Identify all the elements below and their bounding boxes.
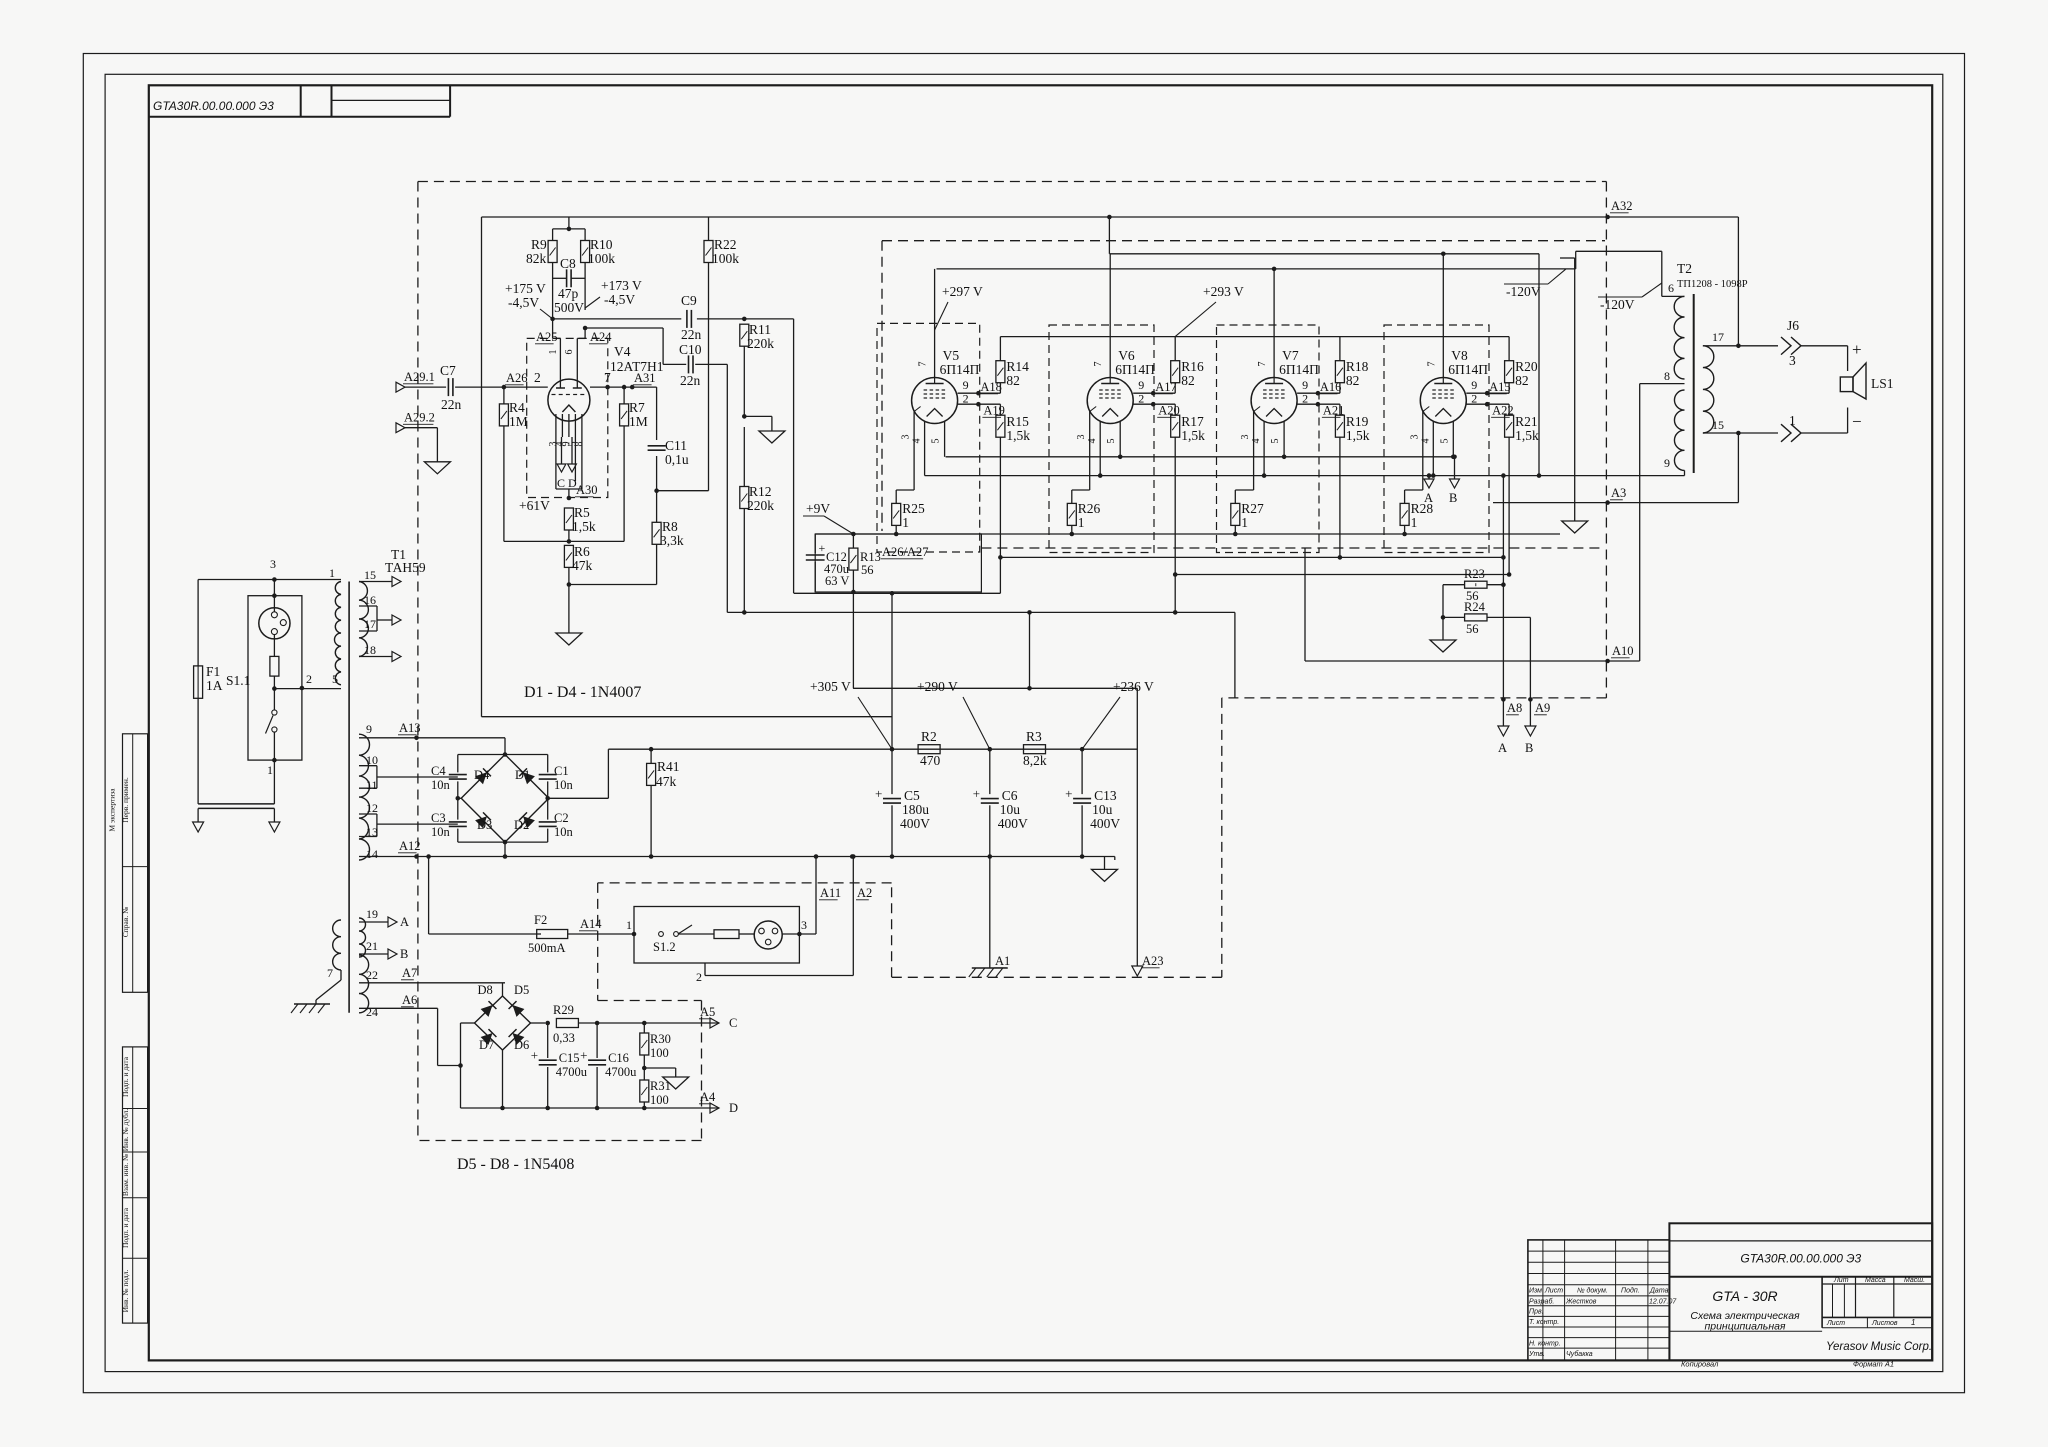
svg-text:D6: D6 — [514, 1038, 529, 1052]
svg-text:ТП1208 - 1098Р: ТП1208 - 1098Р — [1677, 279, 1748, 290]
svg-text:Утв.: Утв. — [1528, 1351, 1545, 1358]
svg-text:7: 7 — [604, 370, 611, 385]
svg-text:+: + — [1852, 340, 1862, 359]
svg-text:47k: 47k — [656, 774, 677, 789]
svg-text:V6: V6 — [1118, 348, 1135, 363]
svg-text:R30: R30 — [650, 1032, 671, 1046]
svg-text:400V: 400V — [998, 816, 1028, 831]
svg-text:A26/A27: A26/A27 — [882, 545, 929, 559]
svg-text:10n: 10n — [554, 778, 574, 792]
svg-text:B: B — [400, 947, 408, 961]
svg-text:R3: R3 — [1026, 729, 1042, 744]
svg-text:3: 3 — [901, 435, 912, 440]
svg-text:C3: C3 — [431, 811, 446, 825]
svg-text:C9: C9 — [681, 293, 697, 308]
svg-text:R17: R17 — [1181, 414, 1204, 429]
svg-text:+: + — [973, 786, 980, 801]
svg-text:Масш.: Масш. — [1904, 1277, 1925, 1284]
svg-text:+: + — [875, 786, 882, 801]
svg-text:22n: 22n — [681, 327, 702, 342]
svg-text:+175 V: +175 V — [505, 281, 546, 296]
svg-text:5: 5 — [1270, 439, 1281, 444]
svg-text:GTA30R.00.00.000 Э3: GTA30R.00.00.000 Э3 — [1740, 1251, 1861, 1265]
svg-text:C13: C13 — [1094, 788, 1117, 803]
svg-text:Взам. инв. №: Взам. инв. № — [121, 1154, 130, 1196]
svg-text:9: 9 — [1664, 456, 1670, 470]
svg-text:6: 6 — [564, 350, 575, 355]
svg-text:5: 5 — [931, 439, 942, 444]
svg-text:3: 3 — [270, 557, 276, 571]
svg-text:10n: 10n — [554, 825, 574, 839]
svg-text:6П14П: 6П14П — [1279, 362, 1319, 377]
svg-text:Инв. № дубл.: Инв. № дубл. — [121, 1109, 130, 1152]
svg-text:+297 V: +297 V — [942, 284, 983, 299]
svg-text:C11: C11 — [665, 438, 687, 453]
svg-text:J6: J6 — [1787, 318, 1799, 333]
svg-text:D7: D7 — [479, 1038, 494, 1052]
svg-text:63 V: 63 V — [825, 574, 849, 588]
svg-text:82: 82 — [1181, 373, 1195, 388]
svg-text:R23: R23 — [1464, 567, 1485, 581]
svg-text:Жестков: Жестков — [1565, 1299, 1597, 1306]
svg-text:LS1: LS1 — [1871, 376, 1894, 391]
svg-text:10: 10 — [366, 753, 378, 767]
svg-text:C: C — [729, 1016, 737, 1030]
svg-text:Перв. примен.: Перв. примен. — [121, 777, 130, 823]
svg-text:8: 8 — [1664, 369, 1670, 383]
svg-text:B: B — [1525, 741, 1533, 755]
svg-text:6П14П: 6П14П — [1115, 362, 1155, 377]
svg-text:-120V: -120V — [1600, 297, 1635, 312]
svg-text:4700u: 4700u — [605, 1065, 637, 1079]
svg-text:100: 100 — [650, 1093, 669, 1107]
svg-text:A5: A5 — [700, 1005, 715, 1019]
svg-text:-120V: -120V — [1506, 284, 1541, 299]
svg-text:11: 11 — [366, 778, 378, 792]
svg-text:принципиальная: принципиальная — [1704, 1321, 1785, 1333]
svg-text:100k: 100k — [712, 251, 739, 266]
svg-text:A: A — [1424, 491, 1433, 505]
svg-text:D3: D3 — [477, 818, 492, 832]
svg-text:A9: A9 — [1535, 701, 1550, 715]
svg-text:Подп. и дата: Подп. и дата — [121, 1207, 130, 1248]
svg-text:56: 56 — [861, 563, 874, 577]
svg-text:1: 1 — [626, 918, 632, 932]
svg-text:1: 1 — [1411, 515, 1418, 530]
svg-text:Подп. и дата: Подп. и дата — [121, 1056, 130, 1097]
svg-text:C7: C7 — [440, 363, 456, 378]
svg-text:R10: R10 — [590, 237, 613, 252]
svg-text:1,5k: 1,5k — [1515, 428, 1539, 443]
svg-text:A6: A6 — [402, 993, 417, 1007]
svg-text:+9V: +9V — [806, 501, 830, 516]
svg-text:R11: R11 — [749, 322, 771, 337]
svg-text:1: 1 — [1241, 515, 1248, 530]
svg-text:C6: C6 — [1002, 788, 1018, 803]
svg-text:A31: A31 — [634, 371, 656, 385]
svg-text:4: 4 — [1087, 439, 1098, 444]
svg-text:7: 7 — [1426, 362, 1437, 367]
svg-text:A23: A23 — [1142, 954, 1164, 968]
svg-text:Копировал: Копировал — [1681, 1360, 1719, 1369]
svg-text:Справ. №: Справ. № — [121, 907, 130, 938]
svg-text:A26: A26 — [506, 371, 528, 385]
svg-text:R6: R6 — [574, 544, 590, 559]
svg-text:+: + — [1065, 786, 1072, 801]
svg-text:R9: R9 — [531, 237, 547, 252]
svg-text:2: 2 — [696, 970, 702, 984]
svg-text:R21: R21 — [1515, 414, 1538, 429]
svg-text:Изм: Изм — [1529, 1288, 1542, 1295]
svg-text:A1: A1 — [995, 954, 1010, 968]
svg-text:22: 22 — [366, 968, 378, 982]
svg-text:R19: R19 — [1346, 414, 1369, 429]
svg-text:2: 2 — [1471, 392, 1477, 406]
svg-text:GTA - 30R: GTA - 30R — [1712, 1288, 1777, 1304]
svg-text:D1: D1 — [515, 768, 530, 782]
svg-text:+173 V: +173 V — [601, 278, 642, 293]
svg-text:6: 6 — [1668, 281, 1674, 295]
svg-text:Н. контр.: Н. контр. — [1529, 1341, 1561, 1348]
svg-text:17: 17 — [364, 617, 376, 631]
svg-text:4: 4 — [912, 439, 923, 444]
svg-text:Прв.: Прв. — [1529, 1309, 1544, 1316]
svg-text:4: 4 — [1251, 439, 1262, 444]
svg-text:S1.1: S1.1 — [226, 673, 250, 688]
svg-text:8,2k: 8,2k — [1023, 753, 1047, 768]
svg-text:R18: R18 — [1346, 359, 1369, 374]
svg-text:1: 1 — [1911, 1318, 1915, 1327]
svg-text:9: 9 — [1302, 378, 1308, 392]
svg-text:Лит: Лит — [1833, 1277, 1849, 1284]
svg-text:C16: C16 — [608, 1051, 629, 1065]
svg-text:R22: R22 — [714, 237, 737, 252]
svg-text:10n: 10n — [431, 825, 451, 839]
svg-text:R4: R4 — [509, 400, 525, 415]
svg-text:+305 V: +305 V — [810, 679, 851, 694]
svg-text:A25: A25 — [536, 330, 558, 344]
svg-text:R24: R24 — [1464, 600, 1486, 614]
svg-text:R27: R27 — [1241, 501, 1264, 516]
svg-text:C4: C4 — [431, 764, 446, 778]
svg-text:F1: F1 — [206, 664, 220, 679]
svg-text:R5: R5 — [574, 505, 590, 520]
svg-text:D2: D2 — [514, 818, 529, 832]
svg-text:V4: V4 — [614, 344, 631, 359]
svg-text:C8: C8 — [560, 256, 576, 271]
svg-text:0,33: 0,33 — [553, 1031, 575, 1045]
svg-text:A32: A32 — [1611, 199, 1633, 213]
svg-text:3: 3 — [1240, 435, 1251, 440]
svg-text:3,3k: 3,3k — [660, 533, 684, 548]
svg-text:15: 15 — [364, 568, 376, 582]
svg-text:Формат А1: Формат А1 — [1853, 1360, 1894, 1369]
svg-text:1: 1 — [329, 566, 335, 580]
svg-text:R8: R8 — [662, 519, 678, 534]
svg-text:1,5k: 1,5k — [1006, 428, 1030, 443]
svg-text:19: 19 — [366, 907, 378, 921]
svg-text:+: + — [531, 1048, 538, 1063]
svg-text:Yerasov Music Corp.: Yerasov Music Corp. — [1826, 1341, 1932, 1353]
svg-text:500V: 500V — [554, 300, 584, 315]
svg-text:S1.2: S1.2 — [653, 940, 676, 954]
svg-text:1M: 1M — [629, 414, 648, 429]
svg-text:V8: V8 — [1451, 348, 1468, 363]
svg-text:3: 3 — [1789, 353, 1796, 368]
svg-text:47k: 47k — [572, 558, 593, 573]
svg-text:7: 7 — [1257, 362, 1268, 367]
svg-text:A8: A8 — [1507, 701, 1522, 715]
svg-text:400V: 400V — [1090, 816, 1120, 831]
svg-text:GTA30R.00.00.000 Э3: GTA30R.00.00.000 Э3 — [153, 99, 274, 113]
svg-text:47p: 47p — [558, 286, 579, 301]
svg-text:100: 100 — [650, 1046, 669, 1060]
svg-text:470: 470 — [920, 753, 941, 768]
svg-text:82: 82 — [1515, 373, 1529, 388]
svg-text:82k: 82k — [526, 251, 547, 266]
svg-text:9: 9 — [963, 378, 969, 392]
svg-text:7: 7 — [1093, 362, 1104, 367]
svg-text:Дата: Дата — [1649, 1288, 1669, 1295]
svg-text:V5: V5 — [943, 348, 960, 363]
svg-text:1: 1 — [548, 350, 559, 355]
svg-text:R31: R31 — [650, 1079, 671, 1093]
svg-text:D5 - D8 - 1N5408: D5 - D8 - 1N5408 — [457, 1156, 574, 1173]
svg-text:82: 82 — [1006, 373, 1020, 388]
svg-text:2: 2 — [963, 392, 969, 406]
svg-text:V7: V7 — [1282, 348, 1299, 363]
svg-text:1A: 1A — [206, 678, 223, 693]
svg-text:-4,5V: -4,5V — [604, 292, 635, 307]
svg-text:5: 5 — [1439, 439, 1450, 444]
svg-text:A10: A10 — [1612, 644, 1634, 658]
svg-text:R29: R29 — [553, 1003, 574, 1017]
svg-text:A29.2: A29.2 — [404, 411, 435, 425]
svg-text:21: 21 — [366, 939, 378, 953]
svg-text:C2: C2 — [554, 811, 569, 825]
svg-text:10u: 10u — [1000, 802, 1021, 817]
svg-text:Лист: Лист — [1826, 1320, 1845, 1327]
svg-text:14: 14 — [366, 847, 378, 861]
svg-text:22n: 22n — [441, 397, 462, 412]
svg-text:15: 15 — [1712, 418, 1724, 432]
svg-text:6П14П: 6П14П — [940, 362, 980, 377]
svg-text:D4: D4 — [474, 768, 490, 782]
svg-text:R7: R7 — [629, 400, 645, 415]
svg-text:2: 2 — [1302, 392, 1308, 406]
svg-text:12: 12 — [366, 801, 378, 815]
svg-text:56: 56 — [1466, 622, 1479, 636]
svg-text:R15: R15 — [1006, 414, 1029, 429]
svg-text:1M: 1M — [509, 414, 528, 429]
svg-text:+: + — [580, 1048, 587, 1063]
svg-text:R12: R12 — [749, 484, 772, 499]
svg-text:R25: R25 — [902, 501, 925, 516]
svg-text:500mA: 500mA — [528, 941, 566, 955]
svg-text:9: 9 — [1138, 378, 1144, 392]
svg-text:12.07.07: 12.07.07 — [1649, 1299, 1677, 1306]
svg-text:Листов: Листов — [1871, 1320, 1898, 1327]
svg-text:A24: A24 — [590, 330, 612, 344]
svg-text:R2: R2 — [921, 729, 937, 744]
svg-text:4: 4 — [1420, 439, 1431, 444]
svg-text:C1: C1 — [554, 764, 569, 778]
svg-text:A: A — [400, 915, 409, 929]
svg-text:10n: 10n — [431, 778, 451, 792]
svg-text:R13: R13 — [860, 550, 881, 564]
svg-text:Подп.: Подп. — [1621, 1287, 1640, 1295]
svg-text:B: B — [1449, 491, 1457, 505]
svg-text:+293 V: +293 V — [1203, 284, 1244, 299]
svg-text:1,5k: 1,5k — [1346, 428, 1370, 443]
svg-text:0,1u: 0,1u — [665, 452, 689, 467]
svg-text:Лист: Лист — [1544, 1288, 1563, 1295]
svg-text:400V: 400V — [900, 816, 930, 831]
svg-text:D8: D8 — [478, 983, 493, 997]
svg-text:+: + — [819, 541, 826, 555]
svg-text:2: 2 — [306, 672, 312, 686]
svg-text:+236 V: +236 V — [1113, 679, 1154, 694]
svg-text:2: 2 — [1138, 392, 1144, 406]
svg-text:5: 5 — [1106, 439, 1117, 444]
svg-text:R26: R26 — [1078, 501, 1101, 516]
svg-text:1,5k: 1,5k — [572, 519, 596, 534]
svg-text:17: 17 — [1712, 330, 1724, 344]
svg-text:24: 24 — [366, 1005, 378, 1019]
svg-text:A29.1: A29.1 — [404, 370, 435, 384]
svg-text:10u: 10u — [1092, 802, 1113, 817]
svg-text:A11: A11 — [820, 886, 841, 900]
svg-text:Чубакка: Чубакка — [1566, 1350, 1593, 1358]
svg-text:A2: A2 — [857, 886, 872, 900]
svg-text:3: 3 — [1076, 435, 1087, 440]
svg-text:Разраб.: Разраб. — [1529, 1298, 1554, 1306]
svg-text:22n: 22n — [680, 373, 701, 388]
svg-text:A: A — [1498, 741, 1507, 755]
svg-text:4700u: 4700u — [556, 1065, 588, 1079]
svg-text:R14: R14 — [1006, 359, 1029, 374]
svg-text:A30: A30 — [576, 483, 598, 497]
svg-text:16: 16 — [364, 593, 376, 607]
svg-text:+290 V: +290 V — [917, 679, 958, 694]
svg-text:1: 1 — [267, 763, 273, 777]
svg-text:Масса: Масса — [1865, 1277, 1886, 1284]
svg-text:+61V: +61V — [519, 498, 550, 513]
svg-text:D5: D5 — [514, 983, 529, 997]
svg-text:C5: C5 — [904, 788, 920, 803]
svg-text:3: 3 — [1409, 435, 1420, 440]
svg-text:220k: 220k — [747, 336, 774, 351]
svg-text:9: 9 — [366, 722, 372, 736]
svg-text:3: 3 — [801, 918, 807, 932]
svg-text:-4,5V: -4,5V — [508, 295, 539, 310]
svg-text:R16: R16 — [1181, 359, 1204, 374]
svg-text:М экспертиза: М экспертиза — [108, 788, 117, 832]
svg-text:180u: 180u — [902, 802, 929, 817]
svg-text:1,5k: 1,5k — [1181, 428, 1205, 443]
svg-text:C15: C15 — [559, 1051, 580, 1065]
svg-text:1: 1 — [1078, 515, 1085, 530]
svg-text:D: D — [729, 1101, 738, 1115]
svg-text:7: 7 — [327, 966, 333, 980]
svg-text:−: − — [1852, 412, 1862, 431]
svg-text:100k: 100k — [588, 251, 615, 266]
svg-text:A13: A13 — [399, 721, 421, 735]
svg-text:ТАН59: ТАН59 — [385, 560, 426, 575]
svg-text:C: C — [557, 476, 565, 490]
svg-text:Т. контр.: Т. контр. — [1529, 1319, 1559, 1326]
svg-text:1: 1 — [902, 515, 909, 530]
svg-text:2: 2 — [534, 370, 541, 385]
svg-text:R41: R41 — [657, 759, 680, 774]
svg-text:7: 7 — [918, 362, 929, 367]
svg-text:C10: C10 — [679, 342, 702, 357]
svg-text:5: 5 — [332, 672, 338, 686]
svg-text:R20: R20 — [1515, 359, 1538, 374]
svg-text:A3: A3 — [1611, 486, 1626, 500]
svg-text:№ докум.: № докум. — [1577, 1287, 1608, 1295]
svg-text:T2: T2 — [1677, 261, 1692, 276]
svg-text:D1 - D4 - 1N4007: D1 - D4 - 1N4007 — [524, 684, 641, 701]
svg-text:13: 13 — [366, 825, 378, 839]
svg-text:220k: 220k — [747, 498, 774, 513]
svg-text:1: 1 — [1789, 413, 1796, 428]
svg-text:Инв. № подл.: Инв. № подл. — [121, 1270, 130, 1313]
svg-text:9: 9 — [1471, 378, 1477, 392]
svg-text:82: 82 — [1346, 373, 1360, 388]
svg-text:6П14П: 6П14П — [1448, 362, 1488, 377]
svg-text:A7: A7 — [402, 966, 417, 980]
svg-text:18: 18 — [364, 643, 376, 657]
svg-text:A12: A12 — [399, 839, 421, 853]
svg-text:A14: A14 — [580, 917, 602, 931]
svg-text:A4: A4 — [700, 1090, 716, 1104]
svg-text:F2: F2 — [534, 913, 547, 927]
